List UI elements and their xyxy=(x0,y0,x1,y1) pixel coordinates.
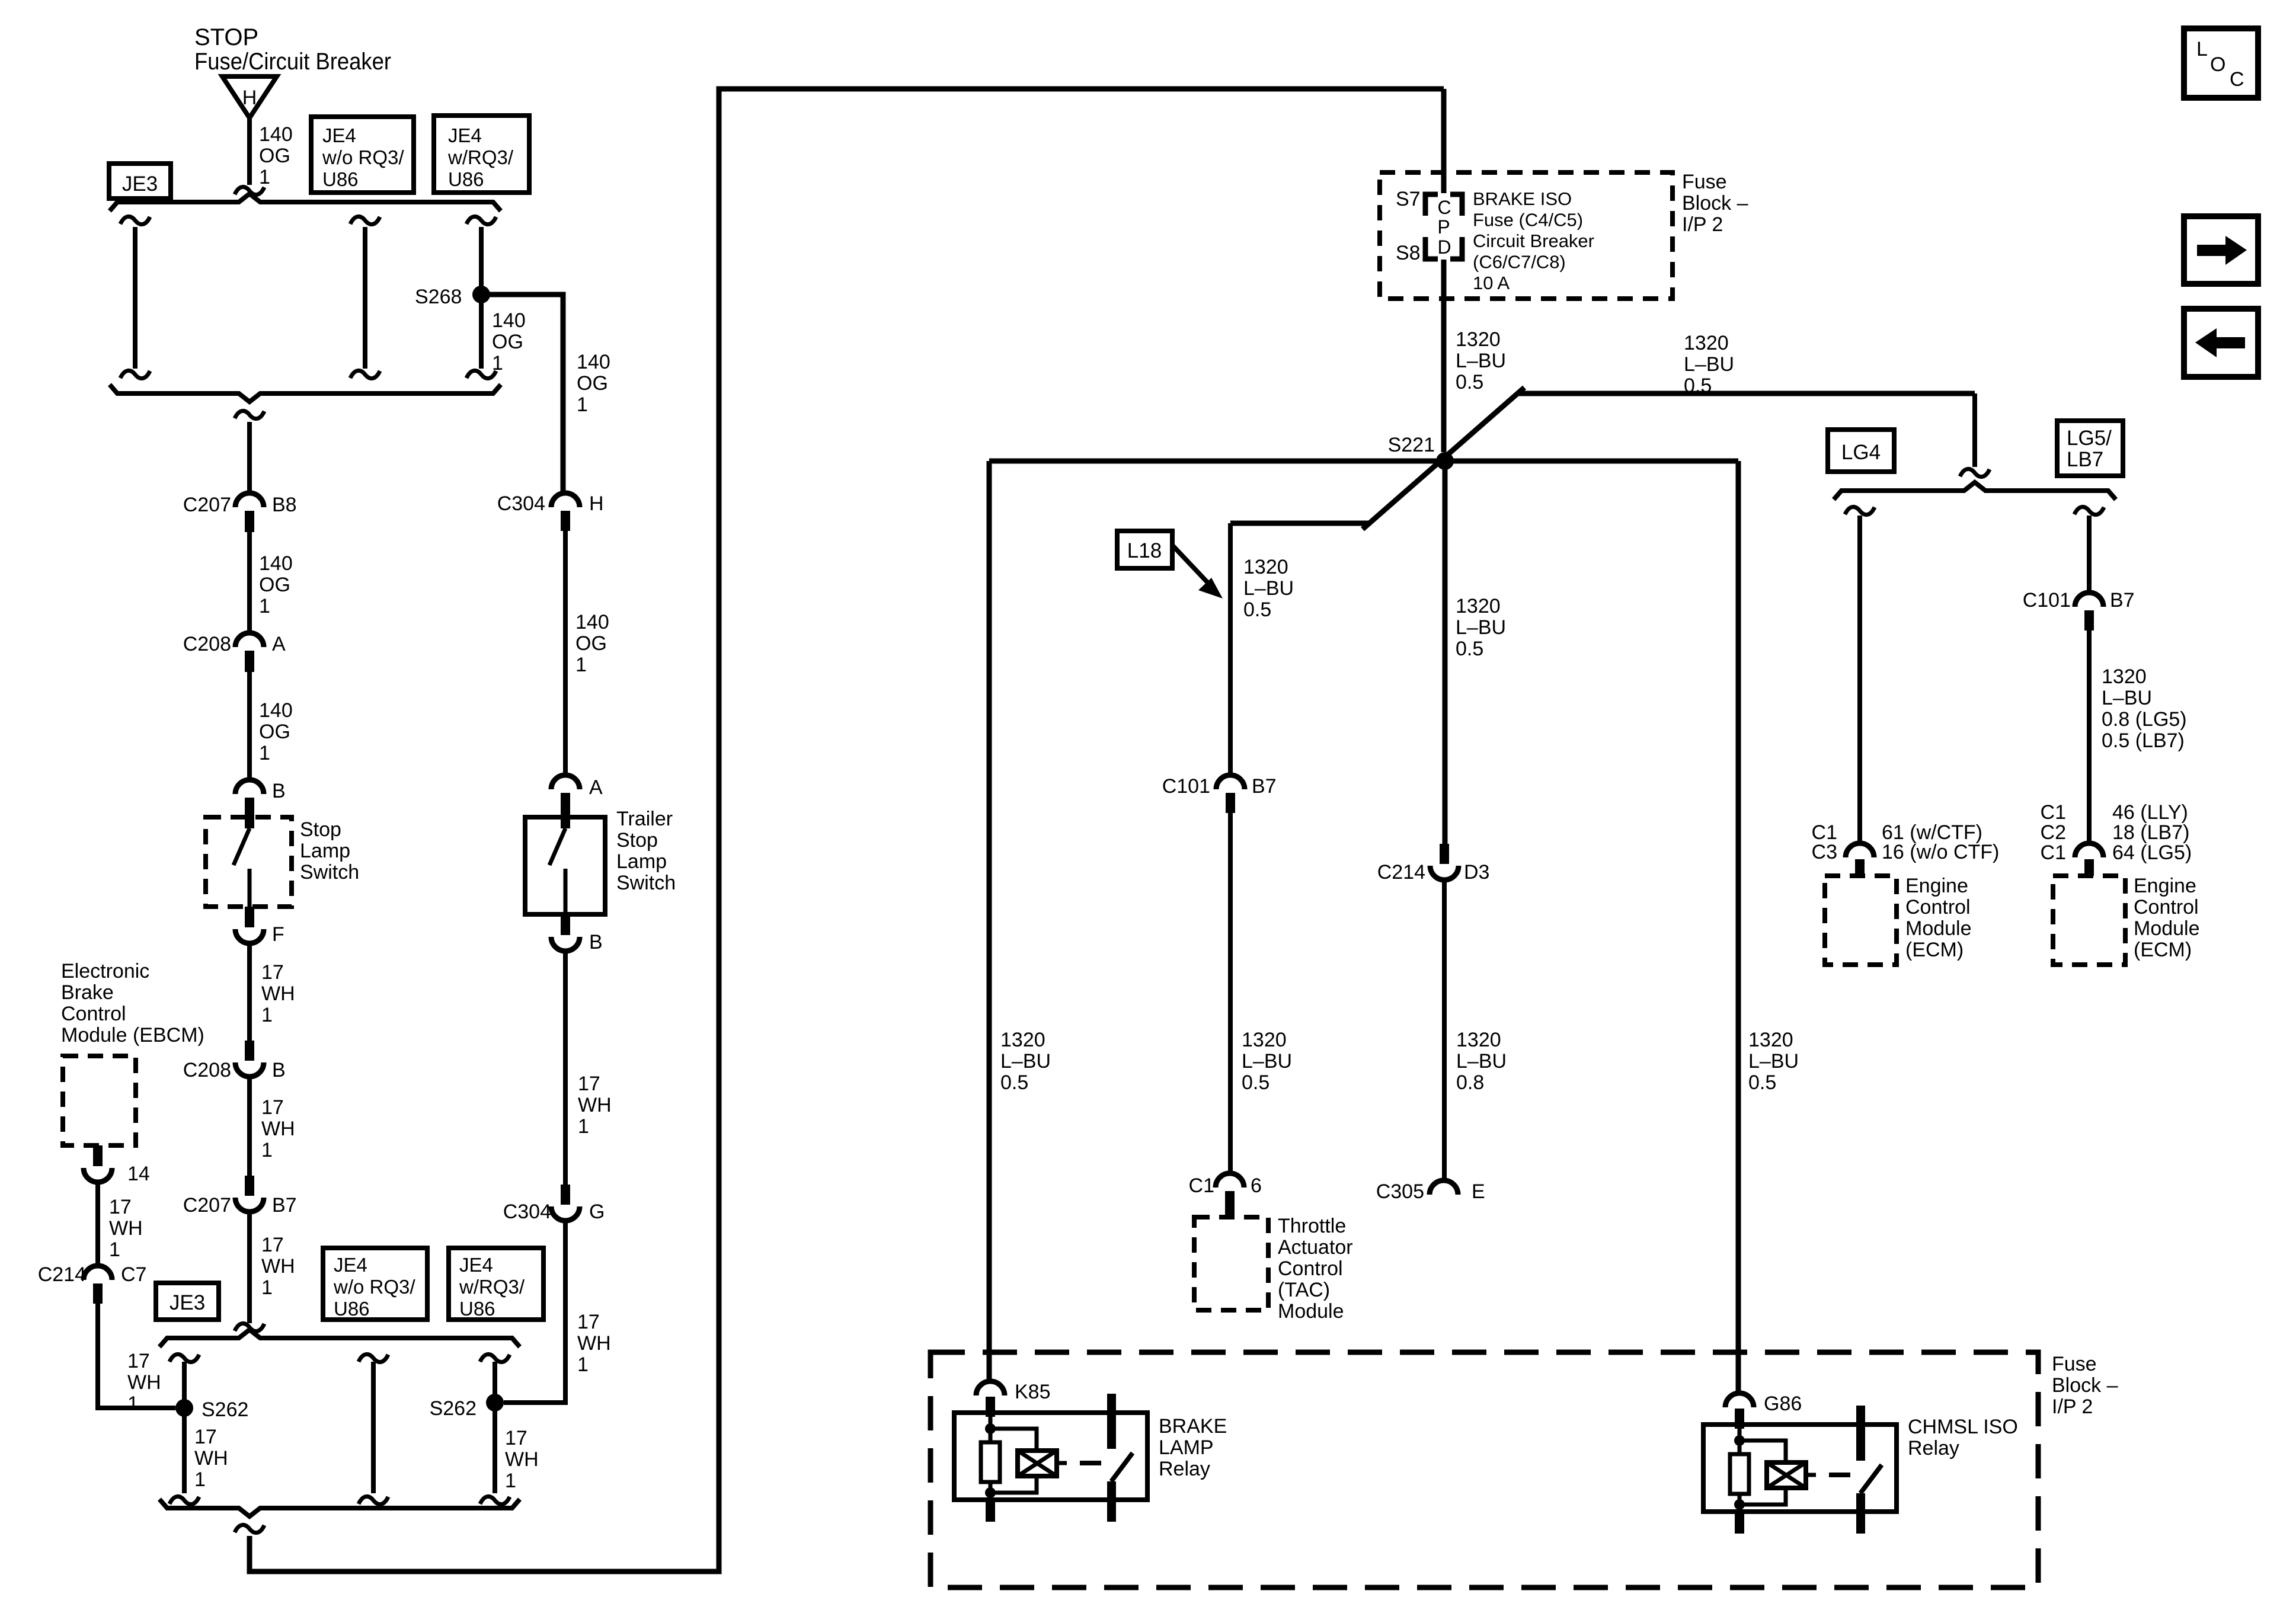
svg-text:A: A xyxy=(589,776,603,799)
relay K1 BRAKE LAMP Relay xyxy=(954,1394,1147,1522)
splice S262 (left) xyxy=(175,1399,193,1417)
wire option branch 2 xyxy=(363,227,367,369)
splice S262 (right) xyxy=(486,1394,504,1411)
relay K2 CHMSL ISO Relay xyxy=(1703,1406,1897,1534)
connector C101 pin B7 (TAC feed) xyxy=(1216,775,1245,789)
wire C214D3 to C305E xyxy=(1442,880,1447,1180)
fuse element CPD brackets xyxy=(1425,194,1438,216)
break symbol LG4 branch xyxy=(1845,507,1875,514)
connector pin B (stop lamp switch) xyxy=(235,780,264,794)
connector C208 pin B xyxy=(245,1041,254,1061)
wire L18 horizontal xyxy=(1230,521,1369,526)
connector pin B (trailer switch) xyxy=(561,914,570,935)
break symbol below merge (2) xyxy=(235,1525,264,1532)
svg-text:C101: C101 xyxy=(1162,775,1210,798)
svg-text:C214: C214 xyxy=(38,1263,86,1286)
wire S221 down xyxy=(1443,461,1448,844)
svg-text:B: B xyxy=(272,1059,286,1081)
option split brace top xyxy=(110,194,501,211)
svg-text:S7: S7 xyxy=(1396,188,1421,210)
wire LG branch down xyxy=(1972,393,1977,467)
svg-text:C208: C208 xyxy=(183,1059,231,1081)
svg-text:JE3: JE3 xyxy=(122,172,158,196)
connector C1/C2/C1 pins (ECM right) xyxy=(2075,843,2103,857)
svg-text:61 (w/CTF)16 (w/o CTF): 61 (w/CTF)16 (w/o CTF) xyxy=(1882,821,1999,863)
component code box L18 xyxy=(1117,531,1172,568)
legend box LOC xyxy=(2184,28,2258,98)
svg-text:EngineControlModule(ECM): EngineControlModule(ECM) xyxy=(1905,875,1972,961)
svg-text:G: G xyxy=(589,1201,605,1223)
wire C304G to S262 right xyxy=(504,1221,565,1403)
wire to G86 xyxy=(1736,461,1741,1393)
option box LG4 xyxy=(1828,430,1894,472)
wire C214C7 to S262 xyxy=(98,1304,175,1408)
wire F to C208B xyxy=(247,943,252,1041)
wire LG5 branch lower xyxy=(2087,630,2092,843)
option merge brace bottom (2) xyxy=(159,1499,520,1516)
wire S221 diagonal xyxy=(1363,388,1524,529)
break symbol branch3 top xyxy=(466,216,496,224)
stop lamp switch box xyxy=(206,817,292,907)
ECM module box (right) xyxy=(2053,876,2125,965)
svg-text:S8: S8 xyxy=(1396,242,1421,264)
wire S268 branch to C304 xyxy=(481,295,563,493)
connector pin K85 (brake lamp relay) xyxy=(976,1381,1005,1417)
wire split2 branch1 lower xyxy=(182,1408,187,1493)
wire S221 horizontal xyxy=(989,459,1738,464)
connector pin 14 (EBCM) xyxy=(93,1145,103,1166)
stop lamp switch blade xyxy=(234,828,250,865)
connector C207 pin B8 xyxy=(235,493,264,507)
break symbol split2 b3 bottom xyxy=(480,1496,510,1504)
splice S268 xyxy=(472,286,490,303)
trailer switch blade xyxy=(549,828,565,865)
svg-text:B7: B7 xyxy=(272,1194,297,1217)
wire EBCM to C214 xyxy=(95,1182,100,1266)
wire C207B7 down to split2 xyxy=(247,1212,252,1323)
option box JE3 xyxy=(109,164,171,199)
connector C101 pin B7 (right) xyxy=(2075,593,2103,607)
option box LG5/LB7 xyxy=(2057,421,2123,476)
svg-text:L: L xyxy=(2196,38,2208,60)
connector C207 pin B7 xyxy=(245,1176,254,1196)
svg-text:14: 14 xyxy=(127,1163,150,1185)
connector C1 pin 6 (TAC) xyxy=(1216,1173,1244,1188)
svg-text:STOP: STOP xyxy=(194,24,258,50)
wire C208B to C207B7 xyxy=(247,1077,252,1176)
break symbol split2 b1 bottom xyxy=(170,1496,199,1504)
wire L18 branch down xyxy=(1228,523,1233,775)
svg-text:C1C2C1: C1C2C1 xyxy=(2041,801,2066,864)
svg-text:B8: B8 xyxy=(272,494,297,516)
svg-text:C101: C101 xyxy=(2023,589,2071,612)
wire split2 branch3 lower xyxy=(493,1403,497,1493)
trailer stop lamp switch box xyxy=(525,817,605,914)
connector C304 pin H xyxy=(551,493,580,507)
nav box arrow right xyxy=(2184,216,2258,284)
svg-text:C: C xyxy=(1437,197,1451,218)
svg-text:P: P xyxy=(1437,216,1450,238)
svg-text:C7: C7 xyxy=(121,1263,146,1286)
svg-text:EngineControlModule(ECM): EngineControlModule(ECM) xyxy=(2134,875,2200,961)
svg-text:JE3: JE3 xyxy=(170,1291,205,1314)
wire C208A to stop lamp switch xyxy=(247,672,252,780)
connector C1/C3 pins (ECM left) xyxy=(1846,843,1874,857)
svg-text:C305: C305 xyxy=(1376,1180,1424,1203)
fuse symbol H (STOP fuse triangle) xyxy=(222,76,277,118)
break symbol split2 b2 bottom xyxy=(359,1496,388,1504)
wire into fuse CPD xyxy=(1441,89,1447,193)
splice S221 xyxy=(1436,452,1454,470)
svg-text:S262: S262 xyxy=(430,1397,477,1420)
option box JE4 w/RQ3/U86 xyxy=(434,116,529,193)
break symbol branch2 bottom xyxy=(350,370,380,378)
wire to LG branch horizontal xyxy=(1518,391,1975,396)
fuse block I/P2 dashed box xyxy=(1380,172,1673,299)
option split2 brace top xyxy=(159,1330,520,1347)
break symbol branch1 bottom xyxy=(120,370,150,378)
option merge brace bottom xyxy=(110,385,501,402)
connector pin F xyxy=(245,907,254,927)
break symbol at fuse drop xyxy=(235,187,264,194)
svg-text:B7: B7 xyxy=(2110,589,2135,612)
wire split2 branch2 xyxy=(371,1362,376,1493)
connector pin G86 (CHMSL relay) xyxy=(1725,1393,1754,1429)
svg-text:C208: C208 xyxy=(183,633,231,655)
wire C304H to trailer switch xyxy=(563,531,568,775)
break symbol LG5 branch xyxy=(2074,507,2104,514)
break symbol split2 b3 top xyxy=(480,1354,510,1362)
svg-text:H: H xyxy=(589,492,604,515)
break symbol above split2 xyxy=(235,1323,264,1331)
svg-text:F: F xyxy=(272,923,284,946)
svg-text:D: D xyxy=(1437,236,1451,258)
svg-text:LG4: LG4 xyxy=(1841,441,1881,464)
svg-text:K85: K85 xyxy=(1015,1381,1051,1403)
wire from fuse H down xyxy=(247,118,252,185)
wire split2 branch1 upper xyxy=(182,1362,187,1408)
svg-text:A: A xyxy=(272,633,286,655)
svg-text:ThrottleActuatorControl(TAC)Mo: ThrottleActuatorControl(TAC)Module xyxy=(1278,1215,1353,1323)
option box JE4 w/o RQ3/U86 (2) xyxy=(323,1248,427,1320)
EBCM module box xyxy=(63,1056,136,1145)
break symbol split2 b1 top xyxy=(170,1354,199,1362)
TAC module box xyxy=(1194,1217,1268,1310)
svg-text:46 (LLY)18 (LB7)64 (LG5): 46 (LLY)18 (LB7)64 (LG5) xyxy=(2112,801,2192,864)
wire merge down to C207 xyxy=(247,422,252,493)
svg-text:H: H xyxy=(242,87,257,109)
wire to K85 xyxy=(987,461,992,1381)
wire trailer B to C304G xyxy=(563,951,568,1185)
svg-text:6: 6 xyxy=(1251,1174,1262,1197)
connector pin A (trailer switch) xyxy=(551,775,580,789)
svg-text:E: E xyxy=(1472,1180,1485,1203)
break symbol LG feed xyxy=(1960,469,1990,476)
wire C207B8 to C208A xyxy=(247,532,252,633)
option box JE4 w/o RQ3/U86 xyxy=(311,117,414,193)
break symbol branch3 bottom xyxy=(466,370,496,378)
svg-text:O: O xyxy=(2210,53,2225,76)
svg-text:D3: D3 xyxy=(1464,861,1489,884)
connector C304 pin G xyxy=(561,1185,570,1205)
nav box arrow left xyxy=(2184,309,2258,377)
svg-text:L18: L18 xyxy=(1127,539,1162,562)
svg-text:C304: C304 xyxy=(503,1201,551,1223)
wire LG5 branch upper xyxy=(2087,516,2092,593)
wire split2 branch3 upper xyxy=(493,1362,497,1403)
connector C214 pin C7 xyxy=(84,1266,112,1280)
wire option branch 1 xyxy=(133,227,137,369)
svg-text:B: B xyxy=(589,931,603,953)
fuse block I/P2 (bottom) dashed box xyxy=(930,1352,2038,1587)
break symbol split2 b2 top xyxy=(359,1354,388,1362)
ECM module box (left) xyxy=(1825,876,1897,965)
wire fuse to S221 xyxy=(1441,260,1447,452)
wire bottom feed loop xyxy=(250,89,1444,1571)
option box JE3 (2) xyxy=(156,1283,219,1320)
wire option branch 3 upper xyxy=(479,227,484,295)
wire LG4 branch xyxy=(1857,516,1862,843)
break symbol branch1 top xyxy=(120,216,150,224)
svg-text:S268: S268 xyxy=(415,286,462,308)
svg-text:C214: C214 xyxy=(1377,861,1425,884)
LG split brace xyxy=(1834,482,2116,500)
svg-text:G86: G86 xyxy=(1764,1393,1802,1415)
break symbol branch2 top xyxy=(350,216,380,224)
svg-text:C207: C207 xyxy=(183,494,231,516)
svg-text:C304: C304 xyxy=(497,492,545,515)
svg-text:B7: B7 xyxy=(1252,775,1277,798)
svg-text:Fuse/Circuit Breaker: Fuse/Circuit Breaker xyxy=(194,49,391,75)
arrow from L18 to wire xyxy=(1172,545,1213,588)
svg-text:C1C3: C1C3 xyxy=(1812,821,1837,863)
connector C214 pin D3 xyxy=(1440,844,1449,864)
connector C208 pin A xyxy=(235,633,264,647)
svg-text:C207: C207 xyxy=(183,1194,231,1217)
option box JE4 w/RQ3/U86 (2) xyxy=(449,1248,543,1320)
svg-text:C: C xyxy=(2230,68,2244,91)
wire option branch 3 lower xyxy=(479,295,484,369)
wire C101B7 to C1-6 xyxy=(1228,813,1233,1173)
break symbol below merge xyxy=(235,411,264,418)
connector C305 pin E xyxy=(1430,1180,1458,1195)
svg-text:S262: S262 xyxy=(202,1398,248,1421)
svg-text:B: B xyxy=(272,780,286,802)
svg-text:S221: S221 xyxy=(1388,434,1435,456)
svg-text:C1: C1 xyxy=(1189,1174,1214,1197)
